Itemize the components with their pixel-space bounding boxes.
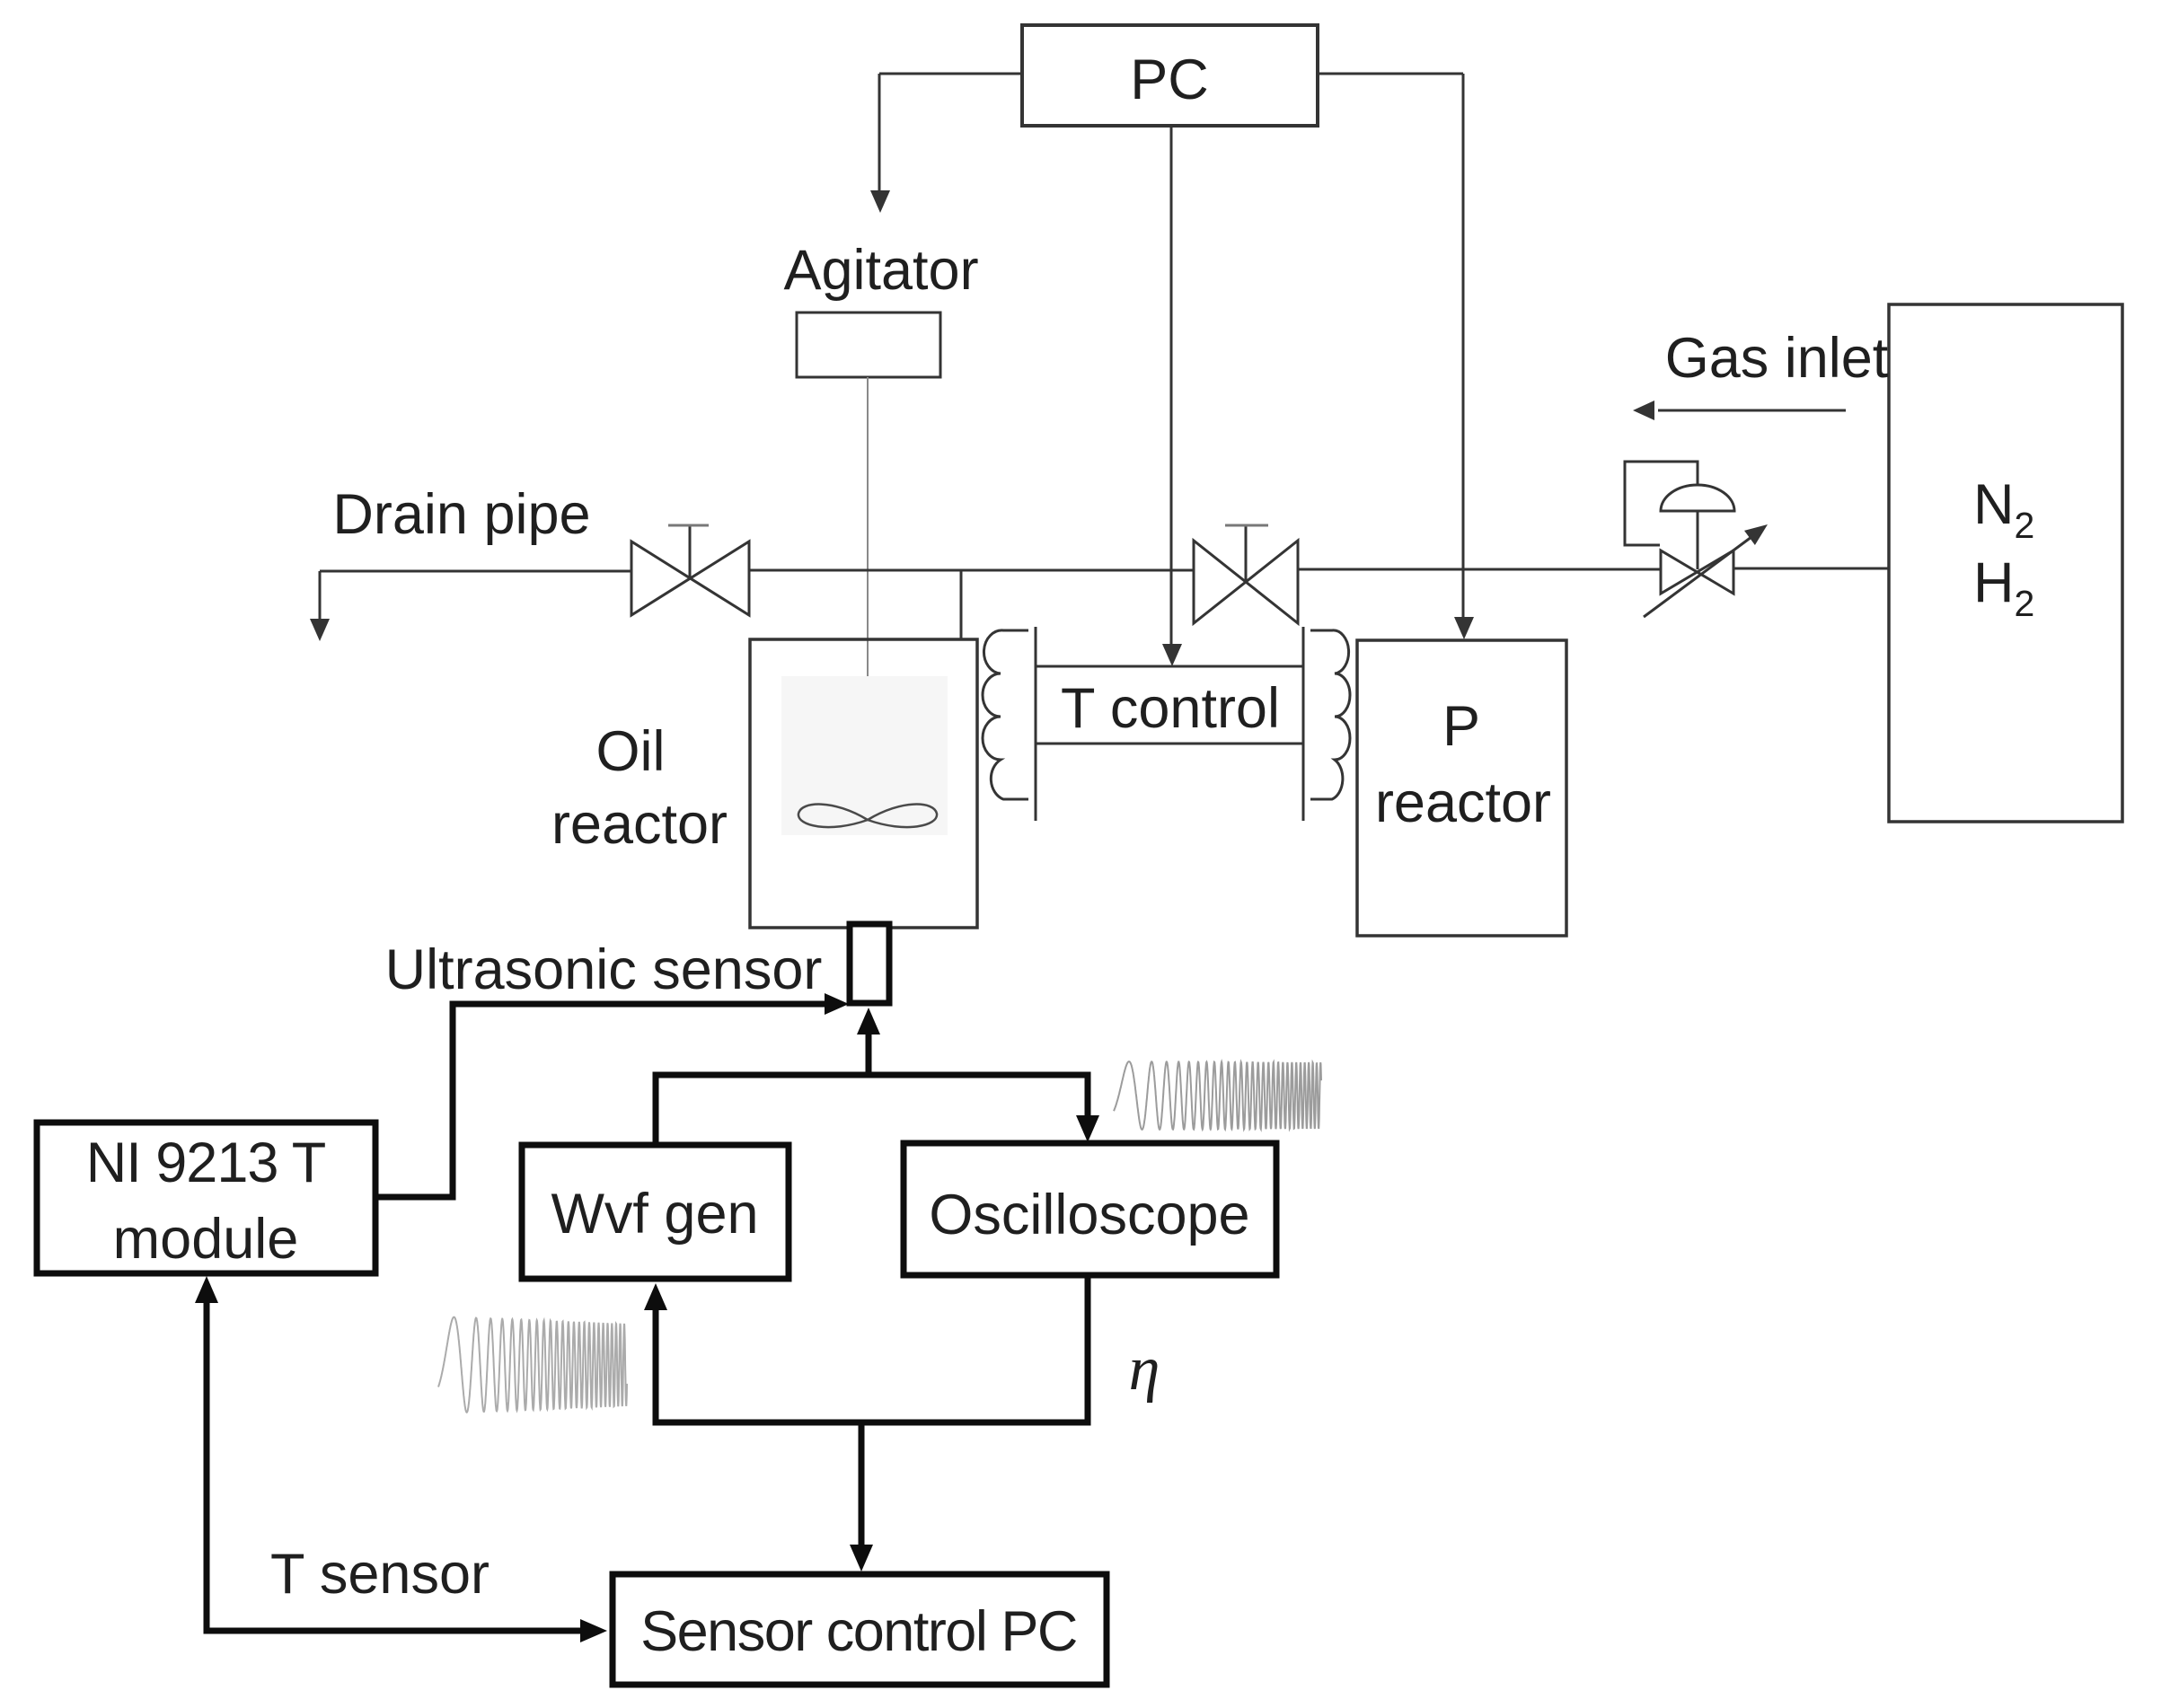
svg-text:T control: T control [1061,677,1280,740]
svg-text:PC: PC [1130,48,1209,111]
svg-text:module: module [113,1208,299,1271]
svg-text:Ultrasonic sensor: Ultrasonic sensor [385,938,823,1001]
svg-text:reactor: reactor [551,793,728,856]
svg-text:NI 9213 T: NI 9213 T [86,1131,326,1194]
svg-text:Oscilloscope: Oscilloscope [929,1184,1249,1246]
svg-text:Sensor control PC: Sensor control PC [640,1600,1077,1663]
svg-text:P: P [1442,695,1480,758]
svg-text:reactor: reactor [1375,771,1551,834]
svg-text:Wvf gen: Wvf gen [551,1183,758,1246]
svg-text:T sensor: T sensor [270,1543,490,1606]
svg-text:Gas inlet: Gas inlet [1665,327,1889,390]
svg-text:η: η [1129,1334,1160,1404]
svg-text:Oil: Oil [596,720,666,783]
svg-text:Drain pipe: Drain pipe [332,483,590,546]
svg-text:Agitator: Agitator [783,239,978,302]
